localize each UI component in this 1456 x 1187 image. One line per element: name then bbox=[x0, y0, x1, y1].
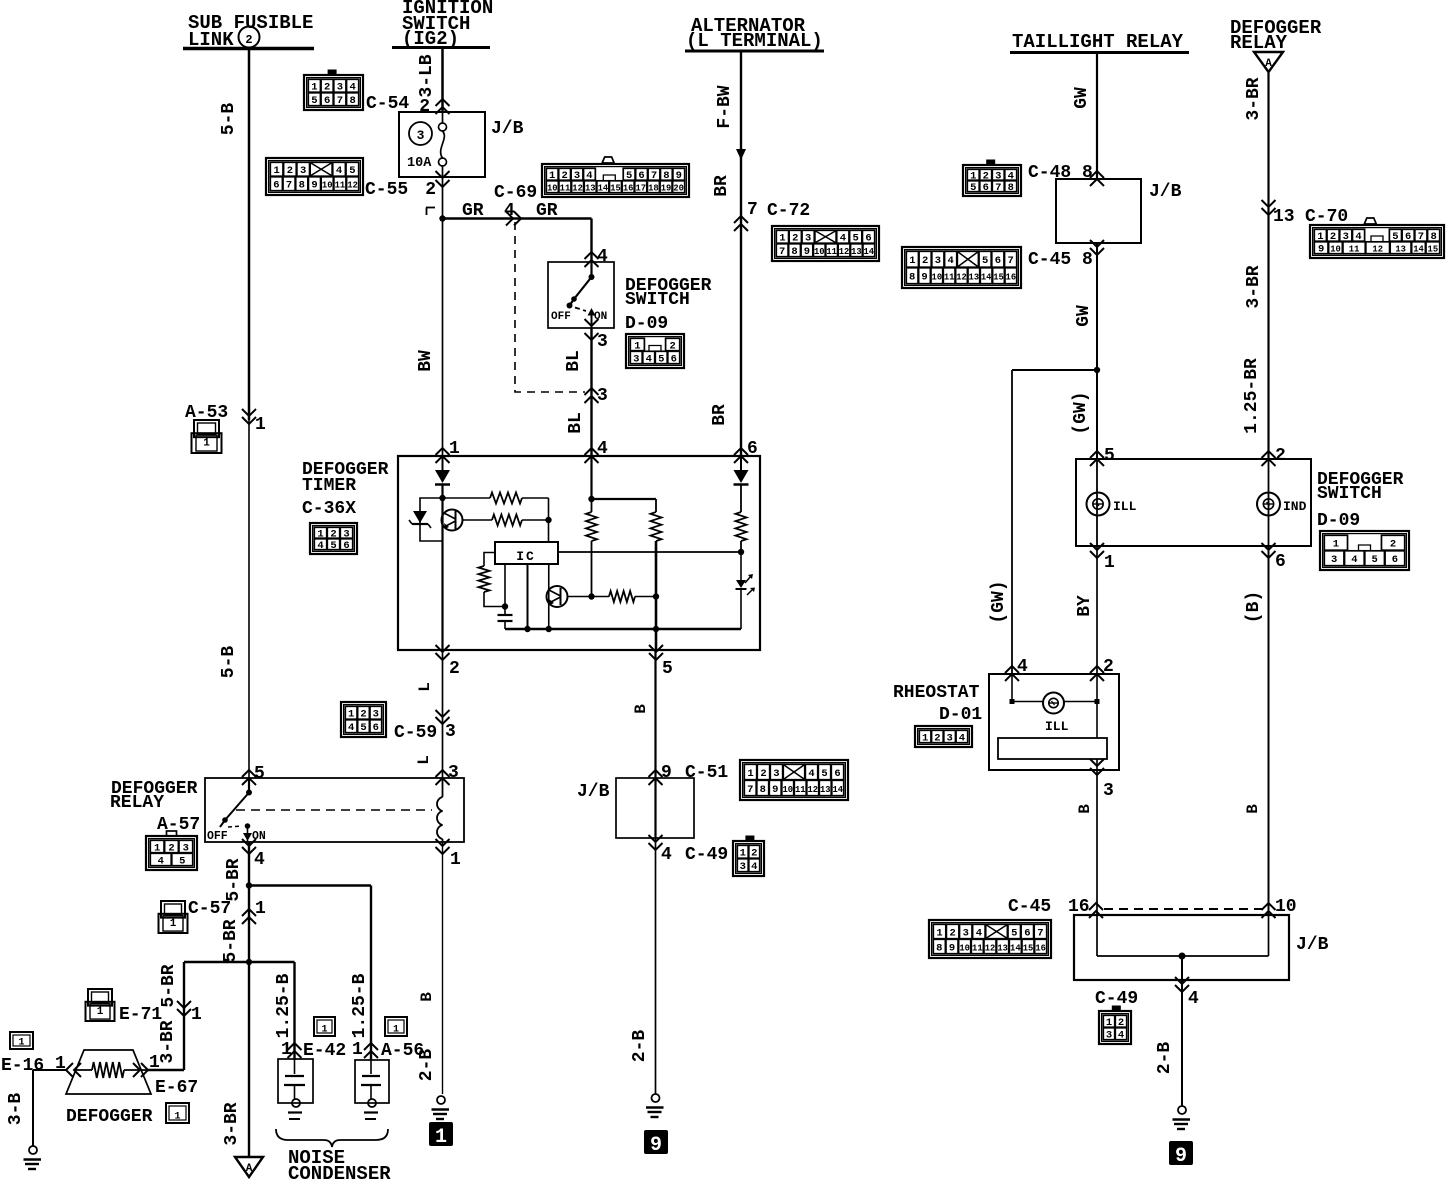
svg-text:SWITCH: SWITCH bbox=[625, 290, 690, 310]
defogger switch pin 6 bbox=[1262, 543, 1276, 550]
svg-text:1: 1 bbox=[747, 768, 753, 780]
svg-text:3: 3 bbox=[773, 768, 779, 780]
defogger switch D-09 box (right) bbox=[1076, 459, 1311, 546]
svg-text:12: 12 bbox=[572, 184, 583, 194]
svg-text:10: 10 bbox=[547, 184, 558, 194]
Q2 feed through bbox=[548, 564, 550, 629]
svg-text:TIMER: TIMER bbox=[302, 476, 356, 496]
ground box 1 bbox=[429, 1122, 453, 1146]
wire B to ground 1 bbox=[442, 842, 444, 1094]
wire 5-B continues bbox=[248, 420, 250, 778]
svg-text:5: 5 bbox=[982, 255, 988, 267]
svg-text:9: 9 bbox=[804, 246, 810, 258]
wire to defogger right pin bbox=[146, 1069, 184, 1071]
svg-text:D-01: D-01 bbox=[939, 705, 982, 725]
svg-text:2: 2 bbox=[1390, 539, 1396, 551]
svg-text:IC: IC bbox=[516, 549, 536, 564]
svg-text:1: 1 bbox=[273, 165, 279, 177]
connector E-42 icon bbox=[314, 1017, 335, 1036]
svg-text:16: 16 bbox=[623, 184, 634, 194]
svg-text:SWITCH: SWITCH bbox=[1317, 484, 1382, 504]
svg-text:5: 5 bbox=[1104, 446, 1115, 466]
svg-text:9: 9 bbox=[1318, 244, 1324, 256]
svg-text:4: 4 bbox=[976, 927, 982, 939]
defogger relay pin 5 bbox=[242, 770, 256, 777]
svg-text:5-B: 5-B bbox=[219, 103, 239, 136]
svg-text:3: 3 bbox=[946, 732, 952, 744]
connector D-09 bbox=[626, 334, 684, 368]
svg-text:4: 4 bbox=[751, 861, 757, 873]
wire 2-B to ground 9 (right) bbox=[1181, 980, 1183, 1106]
svg-text:GR: GR bbox=[536, 201, 558, 221]
svg-text:D-09: D-09 bbox=[1317, 511, 1360, 531]
svg-text:RHEOSTAT: RHEOSTAT bbox=[893, 683, 980, 703]
svg-text:J/B: J/B bbox=[491, 119, 524, 139]
svg-text:6: 6 bbox=[1275, 552, 1286, 572]
svg-text:1: 1 bbox=[149, 1053, 160, 1073]
fuse number circle 3 bbox=[409, 122, 432, 145]
svg-text:6: 6 bbox=[671, 353, 677, 365]
svg-text:BY: BY bbox=[1075, 595, 1095, 617]
svg-text:10: 10 bbox=[814, 247, 825, 257]
wire 1.25-B to A-56 bbox=[370, 886, 372, 1061]
relay pin 3 entry bbox=[436, 770, 450, 777]
svg-text:14: 14 bbox=[832, 785, 843, 795]
svg-text:4: 4 bbox=[336, 165, 342, 177]
wire 3-LB from ignition switch bbox=[441, 47, 444, 112]
svg-text:6: 6 bbox=[983, 182, 989, 194]
svg-text:10: 10 bbox=[322, 181, 333, 191]
svg-text:12: 12 bbox=[985, 943, 996, 953]
IC feed bbox=[548, 520, 550, 542]
svg-text:5: 5 bbox=[970, 182, 976, 194]
connector D-09 (right) bbox=[1320, 531, 1409, 570]
svg-text:13: 13 bbox=[851, 247, 862, 257]
junction block J/B (fuse 3) bbox=[399, 112, 485, 177]
svg-text:ILL: ILL bbox=[1113, 499, 1137, 514]
connector C-36X bbox=[310, 523, 357, 554]
svg-text:7: 7 bbox=[337, 95, 343, 107]
svg-text:3: 3 bbox=[373, 709, 379, 721]
svg-text:13: 13 bbox=[1395, 245, 1406, 255]
junction block J/B (middle) bbox=[616, 778, 694, 838]
svg-text:3-B: 3-B bbox=[6, 1093, 26, 1126]
svg-text:1: 1 bbox=[311, 82, 317, 94]
relay coil bbox=[442, 778, 444, 797]
svg-text:2: 2 bbox=[287, 165, 293, 177]
defogger switch pin 1 bbox=[1090, 543, 1104, 550]
wire GW from taillight relay bbox=[1096, 52, 1098, 179]
fuse symbol bbox=[442, 112, 444, 123]
wire GR jumper bbox=[443, 217, 592, 219]
ground (middle) bbox=[652, 1094, 660, 1102]
wire 3-B to ground bbox=[32, 1070, 34, 1146]
svg-text:E-71: E-71 bbox=[119, 1005, 162, 1025]
svg-text:C-36X: C-36X bbox=[302, 499, 356, 519]
svg-text:14: 14 bbox=[981, 273, 992, 283]
svg-text:4: 4 bbox=[597, 247, 608, 267]
svg-text:C-57: C-57 bbox=[188, 899, 231, 919]
IC pin to capacitor bbox=[504, 564, 506, 607]
svg-text:(B): (B) bbox=[1244, 591, 1264, 623]
svg-text:1.25-B: 1.25-B bbox=[274, 973, 294, 1038]
J/B pin 16 bbox=[1089, 903, 1103, 910]
connector C-70 bbox=[1310, 225, 1444, 258]
relay switch arm bbox=[248, 778, 250, 793]
svg-text:5: 5 bbox=[1011, 927, 1017, 939]
svg-text:8: 8 bbox=[791, 246, 797, 258]
svg-text:A-56: A-56 bbox=[381, 1041, 424, 1061]
relay ON contact bbox=[245, 823, 251, 829]
svg-text:9: 9 bbox=[661, 763, 672, 783]
svg-text:3: 3 bbox=[597, 332, 608, 352]
svg-text:E-67: E-67 bbox=[155, 1078, 198, 1098]
triangle A (defogger relay feed) bbox=[1254, 52, 1283, 72]
lamp IND bbox=[1268, 459, 1270, 546]
svg-text:3: 3 bbox=[740, 861, 746, 873]
svg-text:3-LB: 3-LB bbox=[417, 54, 437, 97]
defogger element E-67 bbox=[66, 1050, 151, 1094]
svg-text:5: 5 bbox=[658, 353, 664, 365]
relay pin 1 bbox=[436, 839, 450, 846]
ground box 9 (right) bbox=[1169, 1141, 1193, 1165]
svg-text:16: 16 bbox=[1006, 273, 1017, 283]
svg-text:BW: BW bbox=[416, 350, 436, 372]
svg-text:2: 2 bbox=[419, 97, 430, 117]
wire GW down bbox=[1096, 243, 1098, 459]
svg-text:3: 3 bbox=[597, 386, 608, 406]
diode D3 bbox=[740, 456, 742, 470]
svg-text:11: 11 bbox=[560, 184, 571, 194]
svg-text:7: 7 bbox=[1037, 927, 1043, 939]
svg-text:12: 12 bbox=[839, 247, 850, 257]
svg-text:2: 2 bbox=[425, 180, 436, 200]
svg-text:(GW): (GW) bbox=[989, 580, 1009, 623]
ground (bottom right) bbox=[1178, 1106, 1186, 1114]
svg-text:6: 6 bbox=[273, 180, 279, 192]
flow arrow bbox=[736, 149, 746, 160]
resistor R6 bbox=[736, 512, 747, 541]
svg-text:4: 4 bbox=[317, 540, 323, 552]
svg-text:(GW): (GW) bbox=[1071, 391, 1091, 434]
svg-text:1: 1 bbox=[1104, 553, 1115, 573]
svg-text:9: 9 bbox=[949, 942, 955, 954]
LED indicator bbox=[740, 552, 742, 580]
svg-text:IND: IND bbox=[1283, 499, 1307, 514]
svg-text:1: 1 bbox=[936, 927, 942, 939]
svg-text:B: B bbox=[418, 992, 436, 1002]
svg-text:2: 2 bbox=[324, 82, 330, 94]
noise condenser brace bbox=[276, 1129, 388, 1147]
wire BW to defogger timer pin 1 bbox=[442, 177, 444, 456]
svg-text:1: 1 bbox=[909, 255, 915, 267]
connector C-48 bbox=[963, 165, 1021, 196]
svg-text:2: 2 bbox=[760, 768, 766, 780]
svg-text:5: 5 bbox=[360, 722, 366, 734]
defogger left pin 1 bbox=[74, 1063, 81, 1077]
IC output line bbox=[558, 551, 741, 553]
timer mid branch pin 4 bbox=[590, 456, 592, 499]
wire GR down to defogger switch bbox=[590, 219, 592, 263]
svg-text:1: 1 bbox=[281, 1040, 292, 1060]
svg-text:3: 3 bbox=[1331, 554, 1337, 566]
svg-text:1.25-BR: 1.25-BR bbox=[1242, 358, 1262, 434]
J/B pin 10 bbox=[1262, 903, 1276, 910]
svg-text:1: 1 bbox=[170, 918, 177, 930]
svg-text:2: 2 bbox=[751, 848, 757, 860]
svg-text:8: 8 bbox=[1008, 182, 1014, 194]
svg-text:4: 4 bbox=[158, 855, 164, 867]
svg-text:F-BW: F-BW bbox=[715, 85, 735, 128]
svg-text:(L TERMINAL): (L TERMINAL) bbox=[686, 30, 823, 52]
svg-text:1: 1 bbox=[352, 1040, 363, 1060]
svg-text:1: 1 bbox=[255, 415, 266, 435]
svg-text:J/B: J/B bbox=[577, 782, 610, 802]
svg-text:13: 13 bbox=[1273, 207, 1295, 227]
timer pin 5 bbox=[649, 645, 663, 652]
ground (center-left) bbox=[437, 1096, 445, 1104]
svg-text:4: 4 bbox=[947, 255, 953, 267]
svg-text:6: 6 bbox=[1392, 554, 1398, 566]
relay pin 4 bbox=[242, 839, 256, 846]
svg-text:3: 3 bbox=[805, 233, 811, 245]
J/B pin 2 entry bbox=[436, 99, 450, 106]
svg-text:B: B bbox=[632, 704, 650, 714]
connector D-01 bbox=[915, 726, 972, 747]
svg-text:A-57: A-57 bbox=[157, 815, 200, 835]
wire 5-B from sub fusible link bbox=[248, 49, 251, 420]
L mark bbox=[426, 207, 435, 209]
svg-text:5: 5 bbox=[330, 540, 336, 552]
svg-text:OFF: OFF bbox=[207, 830, 228, 843]
relay dashed linkage bbox=[236, 809, 432, 811]
svg-text:5: 5 bbox=[1371, 554, 1377, 566]
J/B C-45 pin 8 exit bbox=[1090, 240, 1104, 247]
svg-text:1: 1 bbox=[191, 1005, 202, 1025]
defogger switch pin 2 bbox=[1262, 451, 1276, 458]
wire B to J/B pin 16 bbox=[1096, 770, 1098, 915]
wire L from timer pin 2 bbox=[442, 650, 444, 778]
svg-text:1: 1 bbox=[203, 438, 210, 450]
svg-text:6: 6 bbox=[343, 540, 349, 552]
svg-text:15: 15 bbox=[610, 184, 621, 194]
defogger switch D-09 box bbox=[548, 262, 614, 328]
svg-text:14: 14 bbox=[864, 247, 875, 257]
svg-text:L: L bbox=[416, 682, 434, 692]
svg-text:4: 4 bbox=[348, 722, 354, 734]
svg-text:6: 6 bbox=[865, 233, 871, 245]
connector C-69 bbox=[542, 164, 689, 197]
svg-text:13: 13 bbox=[969, 273, 980, 283]
svg-text:5-BR: 5-BR bbox=[221, 919, 241, 962]
triangle A ground (to defogger relay) bbox=[235, 1157, 263, 1177]
noise condenser E-42 bbox=[278, 1059, 313, 1103]
svg-text:15: 15 bbox=[993, 273, 1004, 283]
defogger switch pin 4 bbox=[585, 252, 599, 259]
connector C-57 inline bbox=[242, 909, 256, 916]
svg-text:1: 1 bbox=[922, 732, 928, 744]
svg-text:2: 2 bbox=[934, 732, 940, 744]
svg-text:10: 10 bbox=[1330, 245, 1341, 255]
svg-text:3: 3 bbox=[337, 82, 343, 94]
svg-text:3: 3 bbox=[963, 927, 969, 939]
svg-text:OFF: OFF bbox=[551, 311, 571, 323]
svg-text:4: 4 bbox=[349, 82, 355, 94]
svg-text:1.25-B: 1.25-B bbox=[350, 973, 370, 1038]
resistor R3 bbox=[484, 553, 495, 567]
svg-text:3: 3 bbox=[633, 353, 639, 365]
svg-text:13: 13 bbox=[997, 943, 1008, 953]
wire F-BW from alternator bbox=[740, 52, 742, 456]
rheostat pin 3 bbox=[1090, 759, 1104, 766]
svg-text:6: 6 bbox=[834, 768, 840, 780]
svg-text:3-BR: 3-BR bbox=[222, 1102, 242, 1145]
svg-text:5: 5 bbox=[853, 233, 859, 245]
IC box bbox=[495, 542, 558, 564]
svg-text:1: 1 bbox=[174, 1112, 180, 1123]
timer pin 1 bbox=[436, 448, 450, 455]
svg-text:BL: BL bbox=[564, 350, 584, 372]
connector C-69 pin 3 inline bbox=[585, 388, 599, 395]
wire 1.25-B to E-42 bbox=[293, 962, 295, 1060]
svg-text:11: 11 bbox=[972, 943, 983, 953]
svg-text:5-B: 5-B bbox=[219, 646, 239, 679]
svg-text:5: 5 bbox=[311, 95, 317, 107]
timer pin 4 bbox=[585, 448, 599, 455]
timer pin 2 bbox=[436, 645, 450, 652]
svg-text:B: B bbox=[1076, 804, 1094, 814]
svg-text:14: 14 bbox=[1010, 943, 1021, 953]
svg-text:10: 10 bbox=[782, 785, 793, 795]
svg-text:11: 11 bbox=[795, 785, 806, 795]
svg-text:2: 2 bbox=[792, 233, 798, 245]
svg-text:J/B: J/B bbox=[1149, 182, 1182, 202]
svg-text:20: 20 bbox=[673, 184, 684, 194]
svg-text:5-BR: 5-BR bbox=[224, 858, 244, 901]
svg-text:4: 4 bbox=[254, 850, 265, 870]
svg-text:7: 7 bbox=[1007, 255, 1013, 267]
svg-text:2: 2 bbox=[360, 709, 366, 721]
wire BL bbox=[590, 328, 592, 456]
svg-text:11: 11 bbox=[335, 181, 346, 191]
rheostat pin 4 bbox=[1005, 666, 1019, 673]
connector C-70 pin 13 inline bbox=[1262, 200, 1276, 207]
svg-text:DEFOGGER: DEFOGGER bbox=[66, 1107, 153, 1127]
svg-text:3: 3 bbox=[445, 722, 456, 742]
svg-text:8: 8 bbox=[936, 942, 942, 954]
defogger timer C-36X box bbox=[398, 456, 760, 650]
svg-text:3: 3 bbox=[448, 763, 459, 783]
svg-text:9: 9 bbox=[921, 272, 927, 284]
svg-text:7: 7 bbox=[747, 200, 758, 220]
connector C-69 pin 4 inline bbox=[506, 212, 513, 226]
svg-text:6: 6 bbox=[373, 722, 379, 734]
svg-text:L: L bbox=[415, 755, 433, 765]
J/B pin 2 exit bbox=[436, 171, 450, 178]
svg-text:2: 2 bbox=[245, 33, 252, 47]
rheostat D-01 box bbox=[989, 674, 1119, 770]
svg-text:2: 2 bbox=[1275, 446, 1286, 466]
svg-text:3: 3 bbox=[300, 165, 306, 177]
svg-text:10: 10 bbox=[932, 273, 943, 283]
svg-text:A: A bbox=[1265, 58, 1272, 70]
transistor Q2 bbox=[547, 586, 568, 607]
wire 2-B to ground 9 bbox=[655, 838, 657, 1094]
svg-text:BR: BR bbox=[710, 404, 730, 426]
svg-text:1: 1 bbox=[97, 1006, 104, 1018]
svg-text:3: 3 bbox=[1103, 781, 1114, 801]
noise condenser A-56 bbox=[355, 1060, 389, 1103]
switch arm bbox=[590, 262, 592, 277]
connector C-72 pin 7 inline bbox=[734, 216, 748, 223]
wire B from defogger switch pin 6 bbox=[1268, 546, 1270, 915]
svg-text:6: 6 bbox=[324, 95, 330, 107]
svg-text:C-51: C-51 bbox=[685, 763, 728, 783]
rheostat pin 2 bbox=[1090, 666, 1104, 673]
ground (left) bbox=[29, 1146, 37, 1154]
connector C-59 pin 3 inline bbox=[436, 710, 450, 717]
J/B pin 4 bbox=[649, 835, 663, 842]
svg-text:D-09: D-09 bbox=[625, 314, 668, 334]
svg-text:5-BR: 5-BR bbox=[159, 964, 179, 1007]
svg-text:ILL: ILL bbox=[1045, 719, 1069, 734]
svg-text:CONDENSER: CONDENSER bbox=[288, 1163, 391, 1182]
svg-text:19: 19 bbox=[661, 184, 672, 194]
svg-text:15: 15 bbox=[1428, 245, 1439, 255]
svg-text:9: 9 bbox=[650, 1134, 662, 1157]
svg-text:4: 4 bbox=[808, 768, 814, 780]
svg-text:C-69: C-69 bbox=[494, 183, 537, 203]
junction block J/B (bottom right) bbox=[1074, 915, 1289, 980]
timer bottom rail bbox=[505, 628, 741, 630]
svg-text:5: 5 bbox=[821, 768, 827, 780]
svg-text:7: 7 bbox=[995, 182, 1001, 194]
connector E-71 inline bbox=[177, 1001, 191, 1008]
svg-text:6: 6 bbox=[1024, 927, 1030, 939]
svg-text:4: 4 bbox=[661, 845, 672, 865]
svg-text:3-BR: 3-BR bbox=[158, 1020, 178, 1063]
svg-text:C-49: C-49 bbox=[685, 845, 728, 865]
connector C-59 bbox=[341, 702, 386, 737]
svg-text:1: 1 bbox=[321, 1025, 327, 1036]
resistor R1 bbox=[443, 497, 491, 499]
svg-text:13: 13 bbox=[820, 785, 831, 795]
svg-text:6: 6 bbox=[995, 255, 1001, 267]
rheostat lamp ILL bbox=[1011, 674, 1013, 702]
svg-text:9: 9 bbox=[311, 180, 317, 192]
svg-text:7: 7 bbox=[286, 180, 292, 192]
svg-text:RELAY: RELAY bbox=[1230, 32, 1288, 54]
svg-text:4: 4 bbox=[597, 439, 608, 459]
svg-text:3: 3 bbox=[935, 255, 941, 267]
svg-text:4: 4 bbox=[840, 233, 846, 245]
svg-text:10: 10 bbox=[959, 943, 970, 953]
svg-text:2-B: 2-B bbox=[630, 1030, 650, 1063]
svg-text:A: A bbox=[246, 1163, 253, 1175]
svg-text:5: 5 bbox=[254, 764, 265, 784]
svg-text:15: 15 bbox=[1023, 943, 1034, 953]
svg-text:C-55: C-55 bbox=[365, 180, 408, 200]
svg-text:12: 12 bbox=[807, 785, 818, 795]
svg-text:B: B bbox=[1244, 804, 1262, 814]
svg-text:8: 8 bbox=[349, 95, 355, 107]
J/B dashed harness line bbox=[1104, 908, 1262, 910]
svg-text:1: 1 bbox=[779, 233, 785, 245]
junction GR tee bbox=[439, 215, 445, 221]
svg-text:E-16: E-16 bbox=[1, 1056, 44, 1076]
svg-text:1: 1 bbox=[1333, 539, 1339, 551]
resistor R2 (base) bbox=[463, 519, 493, 521]
